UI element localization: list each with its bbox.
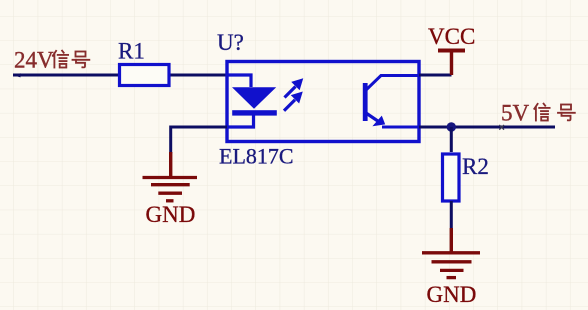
ground left pin: [169, 152, 172, 178]
wire R1 to optocoupler: [170, 74, 227, 77]
transistor emitter arrowhead: [372, 116, 385, 127]
LED cathode bar: [232, 110, 277, 115]
信: [53, 51, 68, 68]
diode LED of U?: [232, 87, 276, 109]
号: [73, 52, 90, 68]
transistor emitter: [366, 113, 380, 123]
junction node: [447, 122, 456, 131]
wire 24V input: [13, 74, 118, 77]
LED light arrow 1: [285, 79, 303, 98]
resistor R1: [120, 65, 170, 86]
ground right pin: [450, 228, 453, 253]
wire end taper: [13, 73, 21, 77]
svg-text:R1: R1: [118, 39, 145, 64]
号: [558, 105, 575, 121]
ground left bars: [143, 178, 198, 201]
transistor Q phototransistor base bar: [363, 83, 368, 121]
wire cathode to left ground: [171, 127, 227, 154]
svg-text:GND: GND: [427, 282, 477, 307]
net label anchor cross: [499, 125, 504, 130]
信: [534, 104, 549, 121]
wire emitter internal: [382, 126, 419, 129]
wire collector to VCC: [419, 74, 452, 77]
net label 24V信号: [14, 48, 89, 73]
resistor R2: [443, 154, 460, 201]
LED light arrow 2: [284, 92, 302, 110]
svg-text:VCC: VCC: [428, 24, 475, 49]
power port VCC: [438, 51, 465, 76]
ground right bars: [422, 253, 480, 278]
net label 5V信号: [501, 101, 575, 126]
svg-text:R2: R2: [462, 154, 489, 179]
wire junction to R2: [450, 127, 453, 152]
svg-text:GND: GND: [146, 202, 196, 227]
svg-text:EL817C: EL817C: [219, 144, 294, 169]
wire emitter to output: [419, 126, 555, 129]
wire LED cathode internal: [227, 116, 254, 128]
svg-text:5V: 5V: [501, 101, 530, 126]
op-amp U1 optocoupler box: [227, 62, 419, 142]
transistor collector: [366, 76, 419, 91]
wire R2 to ground: [450, 201, 453, 228]
svg-text:U?: U?: [217, 30, 244, 55]
wire LED anode internal: [227, 75, 251, 87]
svg-text:24V: 24V: [14, 48, 54, 73]
